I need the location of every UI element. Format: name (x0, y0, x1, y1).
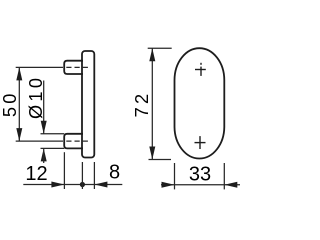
svg-text:72: 72 (132, 91, 152, 118)
svg-text:8: 8 (109, 162, 120, 184)
svg-text:Ø10: Ø10 (26, 75, 46, 119)
svg-text:12: 12 (25, 163, 47, 185)
svg-text:50: 50 (0, 90, 20, 117)
svg-text:33: 33 (189, 164, 211, 186)
